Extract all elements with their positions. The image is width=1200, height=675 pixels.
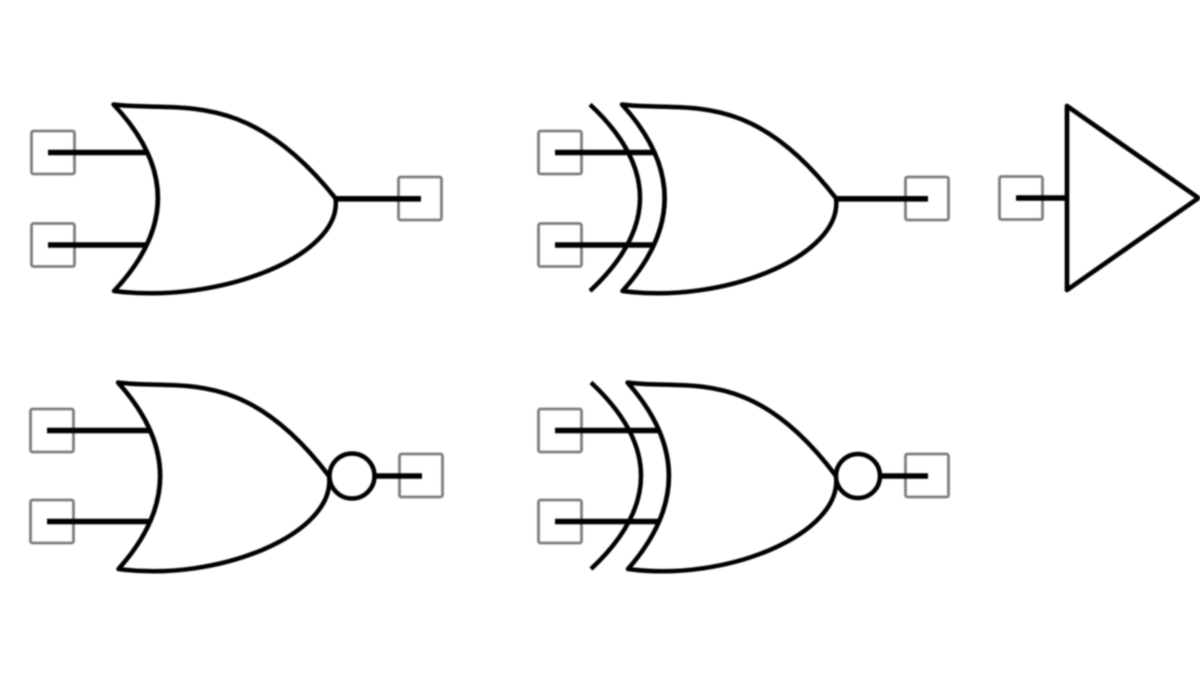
buffer input port square: [1000, 177, 1043, 220]
NOR gate input port square 1: [31, 409, 74, 452]
wire: XNOR input A: [555, 428, 663, 434]
wire: XNOR output stub into port: [904, 473, 928, 479]
wire: NOR output stub into port: [398, 473, 422, 479]
XOR gate extra input arc: [590, 105, 640, 292]
buffer U3 triangle: [1067, 106, 1199, 290]
wire: XOR input B: [555, 242, 660, 248]
wire: XOR output: [836, 196, 928, 202]
wire: OR output stub into port: [397, 196, 421, 202]
NOR gate inversion bubble: [330, 454, 375, 499]
NOR gate output port square: [400, 454, 443, 497]
XOR gate input port square 1: [539, 131, 582, 174]
wire: NOR output: [352, 473, 422, 479]
XNOR gate extra input arc: [591, 383, 641, 570]
XOR gate output port square: [906, 177, 949, 220]
XNOR gate U5 body: [628, 383, 837, 572]
XNOR gate input port square 1: [539, 409, 582, 452]
wire: XOR input A: [555, 150, 660, 156]
OR gate input port square 2: [32, 224, 75, 267]
wire: XNOR input B: [555, 519, 663, 525]
XNOR gate inversion bubble: [836, 454, 880, 498]
wire: OR input B: [48, 242, 149, 248]
XNOR gate input port square 2: [539, 500, 582, 543]
NOR gate input port square 2: [31, 500, 74, 543]
NOR gate U4 body: [118, 383, 329, 572]
XNOR gate output port square: [906, 454, 949, 497]
wire: NOR input B: [47, 519, 151, 525]
OR gate output port square: [399, 177, 442, 220]
wire: XOR output stub into port: [904, 196, 928, 202]
wire: OR output: [336, 196, 421, 202]
XOR gate U2 body: [622, 105, 836, 294]
wire: XNOR output: [858, 473, 928, 479]
wire: NOR input A: [47, 428, 151, 434]
XOR gate input port square 2: [539, 224, 582, 267]
wire: OR input A: [48, 150, 149, 156]
OR gate input port square 1: [32, 131, 75, 174]
wire: buffer input: [1016, 195, 1069, 201]
OR gate U1 body: [114, 105, 336, 294]
